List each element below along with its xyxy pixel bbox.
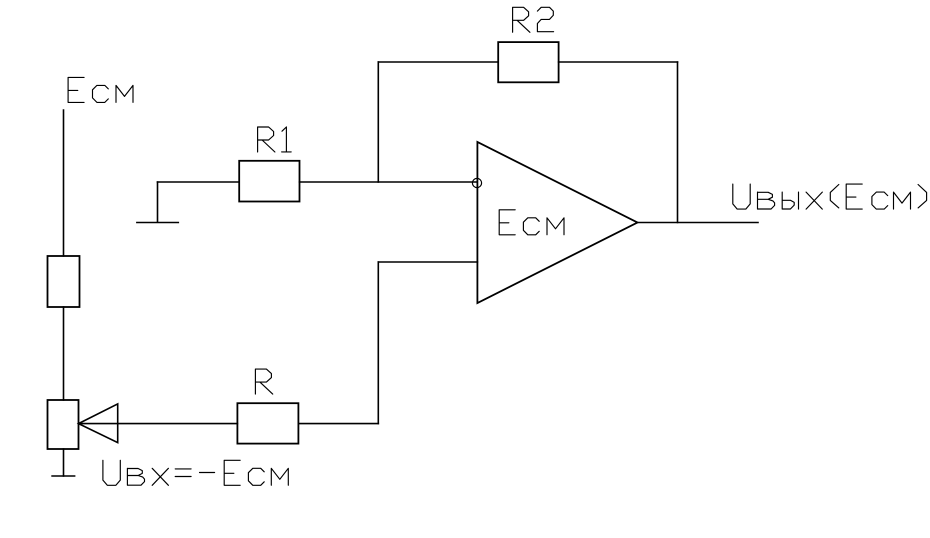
potentiometer wiper arrow [79,404,118,443]
wire from R to non-inverting branch [298,423,378,425]
label R [255,369,272,394]
wire output [638,222,759,224]
wire ground to R1 [158,181,240,183]
wire from potentiometer bottom to ground [63,449,65,476]
wire from Есм node down to upper resistor [63,110,65,256]
wire to op-amp non-inverting input [378,261,477,263]
wire vertical up to non-inverting input [377,262,379,424]
wire R1 to inverting input node [300,181,478,183]
label R2 [513,7,554,32]
resistor R [237,403,298,443]
label Uвх=-Есм [103,460,288,485]
resistor (upper left, unlabeled) [48,256,80,307]
wire feedback top right [559,61,678,63]
wire feedback left vertical [377,62,379,182]
resistor R1 [239,161,299,202]
op-amp label Есм [499,210,564,235]
wire feedback right vertical down to output [677,62,679,223]
wire from wiper to resistor R [79,423,238,425]
ground (left of R1) [137,182,178,223]
wire feedback top left [378,61,498,63]
resistor R2 [498,42,558,82]
wire from upper resistor to potentiometer [63,307,65,400]
label Uвых(Есм) [733,184,927,209]
potentiometer body [48,400,79,449]
inverting input node circle [472,178,481,187]
ground (below potentiometer) [52,475,75,477]
label R1 [258,127,292,152]
op-amp U1 triangle [477,142,637,303]
node Есм label [68,77,133,102]
